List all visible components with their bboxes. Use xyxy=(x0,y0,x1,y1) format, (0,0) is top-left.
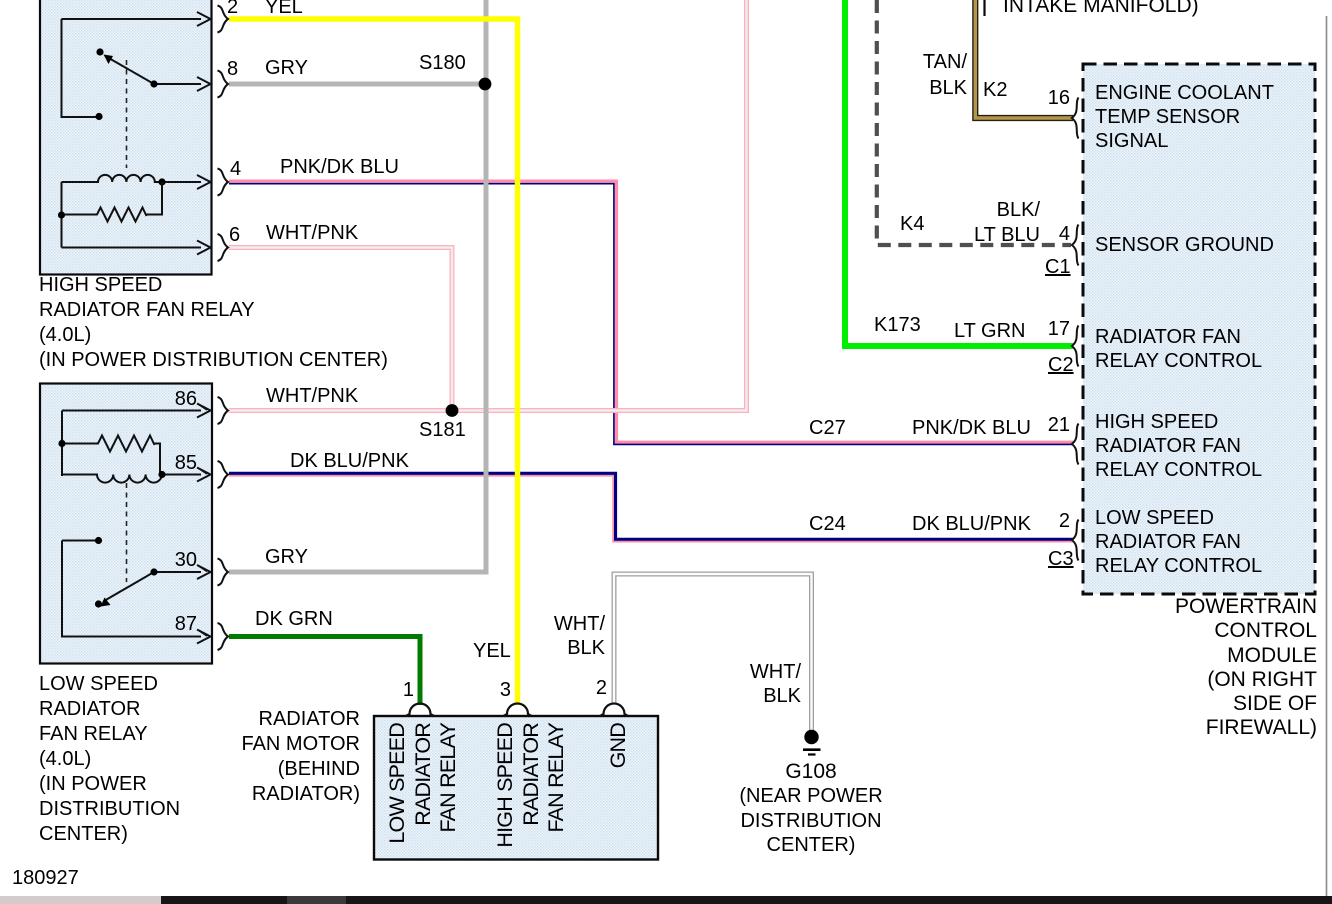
pin 4 number xyxy=(230,157,241,182)
label BLK/LT BLU xyxy=(940,198,1040,247)
splice label S181 xyxy=(419,418,466,443)
pcm caption xyxy=(1117,595,1317,741)
fan motor vertical caption gnd xyxy=(606,723,632,849)
splice S180 xyxy=(479,78,492,91)
pcm pin16 caption xyxy=(1095,81,1274,153)
wire C24 DK BLU/PNK pin85 to PCM pin2 xyxy=(229,473,1073,539)
ground caption near power xyxy=(731,784,891,858)
pin 6 number xyxy=(229,223,240,248)
wire DK GRN pin87 to fan motor pin1 xyxy=(229,637,420,706)
pin 8 number xyxy=(227,57,238,82)
relay K2 caption xyxy=(39,672,180,847)
pcm pin 2 number xyxy=(1030,509,1070,534)
wire GRY vertical and pin30 xyxy=(229,0,486,572)
relay K1 dashed link xyxy=(126,60,128,168)
label TAN/BLK xyxy=(887,49,967,101)
relay K2 pin arrows xyxy=(197,404,211,644)
splice S181 xyxy=(446,404,459,417)
fan pin 3 number xyxy=(481,678,511,703)
fan motor pin2 arc xyxy=(600,704,628,717)
fan pin 1 number xyxy=(384,678,414,703)
pcm pin 4 number xyxy=(1030,222,1070,247)
label K2 xyxy=(983,78,1007,103)
wire WHT/PNK pin6 to splice S181 xyxy=(229,248,452,411)
relay K2 switch xyxy=(62,541,201,637)
pcm pin4 caption xyxy=(1095,233,1274,258)
relay K1 internals : switch xyxy=(62,19,202,117)
page number 180927 xyxy=(12,866,79,891)
label K173 xyxy=(874,313,921,338)
radiator fan motor box xyxy=(374,716,658,860)
relay K2 resistor xyxy=(62,411,160,477)
relay K1 switch arm arrowhead xyxy=(104,55,114,65)
label LT GRN xyxy=(954,319,1026,344)
label WHT/PNK 86 xyxy=(266,384,358,409)
pcm pin 21 number xyxy=(1030,413,1070,438)
fan motor caption xyxy=(200,707,360,807)
bottom browser bar xyxy=(0,896,1332,904)
relay K1 pin6 lead xyxy=(62,247,202,249)
label WHT/PNK xyxy=(266,221,358,246)
fan motor pin3 arc xyxy=(504,704,532,717)
label WHT/BLK fan xyxy=(505,612,605,660)
connector label C1 xyxy=(1045,255,1071,280)
ground caption G108 xyxy=(736,760,886,785)
relay K1 coil xyxy=(62,175,202,182)
fan motor pin1 arc xyxy=(406,704,434,717)
label YEL xyxy=(265,0,303,20)
relay K2 coil junction dot xyxy=(158,471,165,478)
wire K2 TAN/BLK to PCM pin16 xyxy=(975,0,1073,118)
relay K2 resistor junction dot xyxy=(58,440,65,447)
fan pin 2 number xyxy=(577,676,607,701)
intake manifold label xyxy=(1003,0,1199,18)
relay K2 switch arm arrowhead xyxy=(101,598,111,607)
wire WHT/PNK pin86 through S181 up xyxy=(229,0,747,411)
pin 86 number xyxy=(150,387,197,412)
relay K2 pin number ticks xyxy=(198,404,207,636)
PCM pin connector braces xyxy=(1072,98,1079,561)
pcm pin17 caption xyxy=(1095,325,1262,373)
label DK BLU/PNK c24 xyxy=(912,512,1031,537)
relay K2 internals : pin86 lead xyxy=(62,410,201,412)
label K4 xyxy=(900,212,924,237)
page right border xyxy=(1326,16,1328,896)
relay K1 coil junction dot xyxy=(158,178,165,185)
pcm pin 17 number xyxy=(1030,317,1070,342)
connector label C2 xyxy=(1048,353,1074,378)
wire YEL pin2 to fan motor pin3 xyxy=(229,19,518,705)
label PNK/DK BLU c27 xyxy=(912,416,1031,441)
fan motor vertical caption low speed xyxy=(385,723,462,849)
label GRY xyxy=(265,56,308,81)
relay K2 low speed radiator fan relay box xyxy=(40,384,212,664)
connector label C3 xyxy=(1048,547,1074,572)
relay K1 resistor xyxy=(62,182,163,248)
wire K173 LT GRN to PCM pin17 xyxy=(845,0,1073,346)
relay K1 pin arrows xyxy=(197,12,211,255)
wire K4 BLK/LT BLU dashed to PCM pin4 xyxy=(877,0,1071,245)
label DK GRN 87 xyxy=(255,607,333,632)
relay K1 resistor junction dot xyxy=(58,211,65,218)
label YEL fan xyxy=(473,639,511,664)
label WHT/BLK ground xyxy=(701,660,801,708)
relay K2 switch contact dots xyxy=(95,537,102,544)
relay K1 pin connector braces xyxy=(218,6,229,651)
fan motor vertical caption high speed xyxy=(493,723,570,849)
pin 85 number xyxy=(150,451,197,476)
relay K1 switch contact dots xyxy=(96,48,103,55)
relay K2 coil xyxy=(62,475,201,483)
wire C27 PNK/DK BLU pin4 to PCM pin21 xyxy=(229,181,1073,442)
sensor box edge stub above intake manifold label xyxy=(983,0,985,16)
label C24 xyxy=(809,512,846,537)
relay K1 high speed radiator fan relay box xyxy=(40,0,212,275)
pin 87 number xyxy=(150,612,197,637)
relay K1 caption xyxy=(39,273,388,373)
splice label S180 xyxy=(419,51,466,76)
powertrain control module box xyxy=(1083,64,1315,594)
pcm pin2 caption xyxy=(1095,506,1262,578)
pcm pin21 caption xyxy=(1095,410,1262,482)
wire GRY pin8 to splice S180 xyxy=(229,82,486,87)
label C27 xyxy=(809,416,846,441)
wire WHT/BLK fan motor pin2 to ground G108 xyxy=(614,574,812,731)
label GRY 30 xyxy=(265,545,308,570)
ground G108 symbol xyxy=(804,730,818,744)
pin 30 number xyxy=(150,548,197,573)
pcm pin 16 number xyxy=(1030,86,1070,111)
label DK BLU/PNK 85 xyxy=(290,449,409,474)
label PNK/DK BLU xyxy=(280,155,399,180)
pin 2 number xyxy=(227,0,238,20)
relay K2 dashed link xyxy=(126,483,128,582)
